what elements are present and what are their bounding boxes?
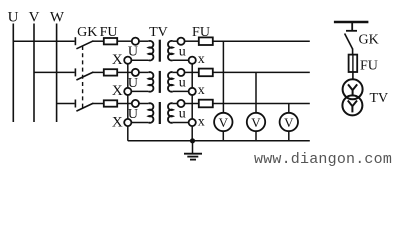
svg-text:GK: GK	[359, 33, 379, 48]
svg-text:www.diangon.com: www.diangon.com	[254, 151, 392, 168]
svg-text:V: V	[29, 10, 40, 26]
svg-text:GK: GK	[77, 25, 97, 40]
svg-text:TV: TV	[370, 91, 389, 106]
svg-text:V: V	[251, 115, 261, 130]
svg-text:TV: TV	[149, 25, 168, 40]
svg-text:W: W	[50, 10, 65, 26]
svg-text:V: V	[284, 115, 294, 130]
svg-text:FU: FU	[360, 59, 378, 74]
svg-text:V: V	[219, 115, 229, 130]
svg-text:U: U	[8, 10, 19, 26]
